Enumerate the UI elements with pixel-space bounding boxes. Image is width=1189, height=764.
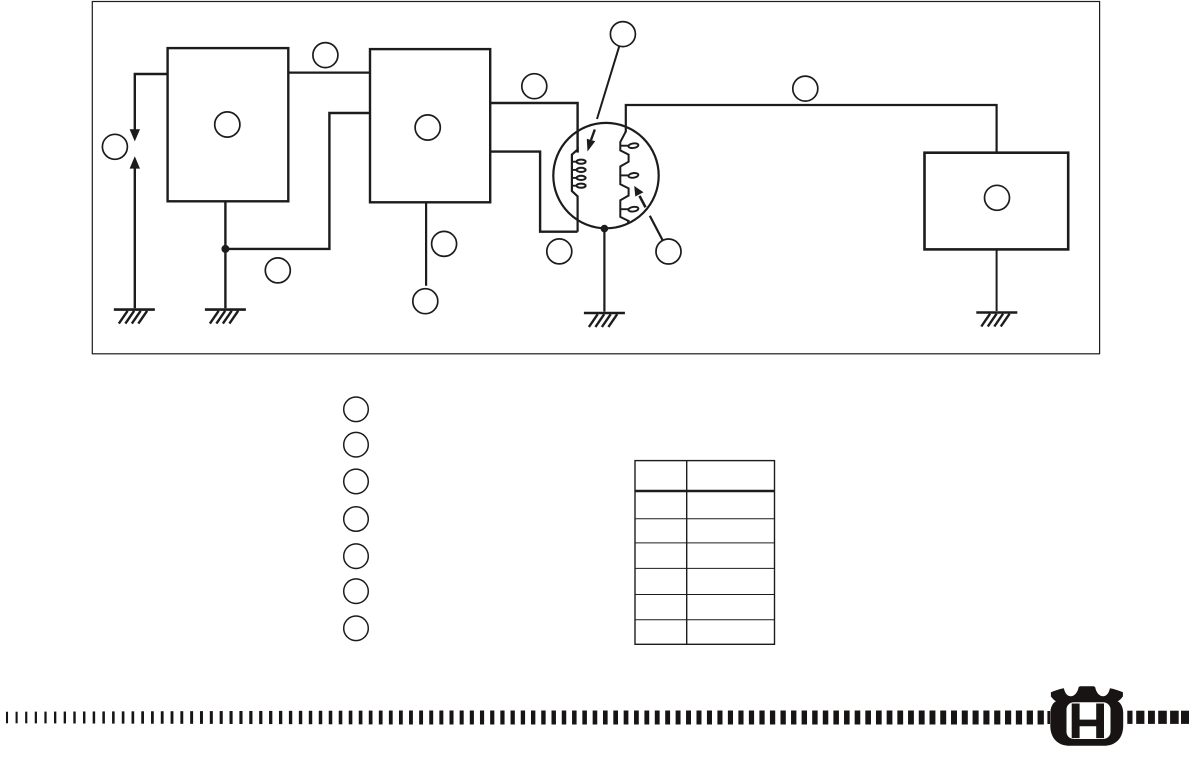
wire: junction to electronic unit	[225, 113, 370, 249]
ground G1 (spark gap)	[114, 310, 155, 324]
legend callout circles column	[344, 397, 369, 641]
callout circle on upper generator wire	[522, 74, 547, 99]
ignition coil box	[168, 48, 289, 201]
callout circle on lower generator wire	[547, 239, 572, 264]
callout line to source coil	[650, 216, 663, 241]
ground G4 (regulator)	[976, 313, 1017, 327]
schematic frame border	[92, 2, 1099, 354]
junction dot	[221, 245, 229, 253]
cursor arrow pointing at source coil	[634, 186, 645, 207]
callout circle: source coil label	[656, 239, 681, 264]
spark gap upper electrode arrowhead	[130, 129, 140, 141]
generator charging coil	[572, 150, 586, 232]
callout circle: HT wire	[313, 43, 338, 68]
ground G3 (generator)	[584, 313, 625, 327]
callout line to charging coil	[597, 46, 619, 119]
wire: ignition coil to spark gap	[135, 74, 168, 130]
wire: ignition coil ground lead	[224, 201, 226, 308]
wire: ignition coil to electronic unit	[288, 71, 370, 73]
electronic unit box	[370, 49, 490, 202]
wire: generator to regulator	[626, 105, 997, 153]
wire: regulator to ground	[996, 249, 998, 311]
wire: spark gap to ground	[134, 168, 136, 308]
callout circle: ground wire	[265, 258, 290, 283]
callout circle inside ignition coil	[215, 112, 240, 137]
wire: electronic unit to generator coil (lower)	[490, 152, 578, 232]
Husqvarna logo	[1050, 686, 1123, 746]
parts table	[635, 461, 775, 645]
callout circle: electronic unit lead label	[432, 231, 457, 256]
callout circle inside regulator	[985, 185, 1010, 210]
junction dot at generator bottom	[601, 225, 609, 233]
wire: electronic unit lower lead	[425, 202, 427, 285]
generator flywheel circle	[553, 123, 658, 228]
callout circle on regulator wire	[793, 76, 818, 101]
callout circle at end of lower lead	[413, 289, 438, 314]
spark gap lower electrode arrowhead	[130, 156, 140, 168]
regulator box	[925, 153, 1069, 250]
generator source coil with taps	[620, 132, 638, 223]
ground G2 (ignition coil)	[205, 310, 246, 324]
wire: generator to ground	[603, 229, 605, 312]
decorative dash strip	[6, 711, 1189, 725]
callout circle inside electronic unit	[415, 115, 440, 140]
callout circle: spark plug	[102, 134, 127, 159]
callout circle: charging coil label	[610, 22, 635, 47]
arrow pointing at charging coil	[587, 130, 595, 152]
wire: electronic unit to generator coil (upper)	[490, 103, 578, 153]
